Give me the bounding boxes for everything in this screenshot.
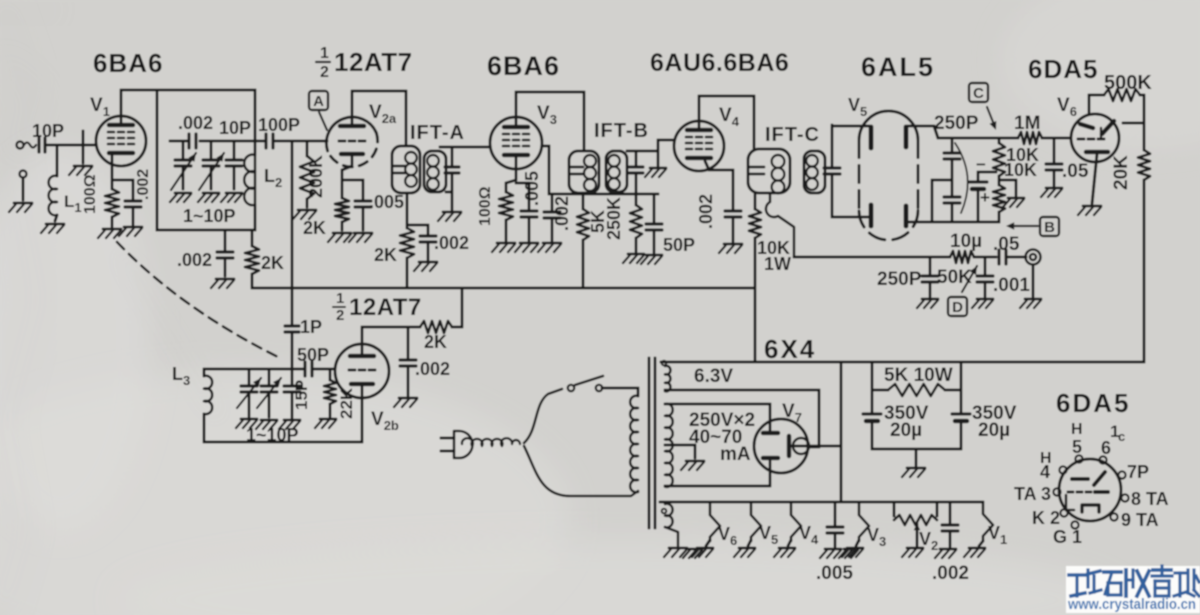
IFT-C primary coil (772, 155, 785, 168)
transformer heater winding (bottom) (665, 504, 673, 528)
capacitor 1P (injection) (285, 324, 299, 327)
svg-text:1~10P: 1~10P (183, 206, 236, 226)
capacitor .05 (output coupling) (997, 250, 1000, 264)
tube V2a half 12AT7 (326, 117, 376, 151)
svg-text:7P: 7P (1127, 462, 1149, 482)
wire osc plate to B+ rail (461, 288, 464, 327)
capacitor 15P (291, 369, 294, 385)
V7 heater circle (793, 438, 809, 454)
resistor 10K 1W (IFT-C to B+) (754, 193, 757, 209)
svg-text:5: 5 (1072, 437, 1082, 457)
filter right riser (960, 362, 963, 413)
ground (osc trimmer2) (261, 419, 277, 422)
ground (.002 V3) (543, 242, 561, 245)
IFT-B primary cap (571, 166, 583, 169)
audio line from tertiary (794, 256, 950, 259)
ground (250K) (628, 253, 644, 256)
svg-text:6X4: 6X4 (764, 334, 816, 364)
svg-text:6BA6: 6BA6 (487, 51, 560, 81)
ground (.002 heater) (940, 548, 956, 551)
wire to cathode bypass cap (112, 179, 133, 182)
svg-text:200K: 200K (306, 155, 326, 198)
svg-text:6AL5: 6AL5 (861, 52, 935, 82)
IFT-C primary can (748, 149, 790, 193)
dashed AGC line (117, 242, 278, 357)
capacitor .005 (V2a cathode) (355, 199, 371, 202)
svg-text:250P: 250P (877, 269, 922, 290)
ground (100R) (103, 228, 121, 231)
IFT-A secondary can (424, 151, 446, 192)
resistor 200K (V2a grid leak) (306, 141, 309, 156)
capacitor .005 (V3) (521, 209, 537, 212)
resistor 250K (635, 194, 638, 205)
svg-text:TA 3: TA 3 (1014, 484, 1051, 504)
svg-text:15P: 15P (292, 380, 311, 410)
svg-text:12AT7: 12AT7 (349, 294, 422, 321)
tube V1 6BA6 (96, 116, 146, 166)
svg-text:1: 1 (320, 45, 329, 62)
output jack (1026, 250, 1041, 265)
wire V3 cathode (515, 155, 518, 180)
wire V2b cathode to tank (361, 385, 364, 442)
capacitor 250P (audio shunt) (929, 257, 932, 275)
IFT-A secondary coil (427, 155, 439, 167)
potentiometer 50K (950, 251, 974, 263)
svg-text:250K: 250K (604, 197, 624, 240)
V5 diode plate bottom-left (869, 205, 874, 226)
resistor 20K (1138, 150, 1150, 180)
hum pot V2 (893, 502, 896, 516)
svg-text:50P: 50P (663, 235, 695, 255)
electrolytic 10u (det) (977, 172, 980, 181)
svg-text:500K: 500K (1104, 72, 1152, 94)
capacitor 10P (in box) (233, 141, 236, 159)
svg-text:100P: 100P (258, 115, 300, 135)
capacitor .002 (V4 cathode) (725, 209, 741, 212)
wire HV top to V7 plate (665, 403, 770, 406)
ground (.005 heater) (825, 548, 841, 551)
capacitor .002 (osc plate) (407, 327, 410, 358)
B+ rail (IF strip) (252, 287, 755, 290)
wire V2b plate (361, 327, 364, 356)
capacitor 50P (AVC) (653, 194, 656, 223)
svg-text:6BA6: 6BA6 (93, 48, 163, 78)
ground (input terminal) (14, 202, 32, 205)
ground (heater V6) (697, 547, 713, 550)
wire V5 bottom diode out (908, 221, 932, 224)
IFT-C primary cap (750, 166, 764, 169)
wire V5 top diode out (908, 125, 934, 128)
wire V2a cathode (351, 155, 354, 166)
svg-text:10P: 10P (219, 118, 251, 138)
wire V7 cathode to B+ riser (791, 445, 841, 448)
ground (22K) (320, 418, 336, 421)
cord lower to primary (524, 446, 638, 496)
IFT-C secondary coil (806, 155, 818, 167)
box bottom edge (157, 229, 255, 232)
svg-text:5K 10W: 5K 10W (884, 365, 953, 386)
box label A (309, 91, 328, 110)
wire antenna to V1 grid (48, 144, 96, 147)
svg-text:.002: .002 (177, 250, 212, 270)
svg-text:1W: 1W (764, 254, 791, 274)
trimmer cap 1 (1~10P) (182, 141, 185, 159)
heater V1 (983, 502, 993, 541)
heater V4 (791, 502, 801, 541)
heater V5 (751, 502, 761, 541)
svg-text:.002: .002 (932, 563, 969, 584)
ground (10P) (226, 192, 242, 195)
wire inside box (grid line) (170, 140, 189, 143)
V5 diode cathode bottom-right (904, 206, 909, 226)
svg-text:.05: .05 (993, 234, 1020, 255)
ground (50P) (646, 254, 662, 257)
svg-text:20K: 20K (1111, 155, 1132, 190)
AC cord twisted (462, 438, 520, 446)
wire mixer grid down to oscillator (291, 141, 294, 325)
svg-text:6.3V: 6.3V (694, 366, 733, 387)
svg-text:1~10P: 1~10P (246, 425, 299, 445)
power switch (568, 385, 574, 391)
socket pins (1075, 455, 1082, 462)
resistor 22K (osc grid) (329, 369, 332, 380)
ground (trimmer2) (203, 192, 219, 195)
capacitor 100P (coupling) (255, 140, 266, 143)
box label B (1040, 217, 1059, 236)
svg-text:9 TA: 9 TA (1121, 510, 1159, 530)
ground (heater V4) (779, 547, 795, 550)
ground (heater V1) (969, 547, 985, 550)
IFT-B secondary can (606, 151, 627, 192)
svg-text:IFT-B: IFT-B (594, 120, 649, 142)
svg-text:c: c (1118, 429, 1125, 444)
pointer arrow from B (1010, 225, 1038, 227)
svg-text:.005: .005 (816, 563, 853, 584)
IFT-C tertiary loop (766, 193, 794, 257)
wire 1M to V6 grid (1042, 137, 1071, 140)
ground (trimmer1) (175, 192, 191, 195)
ground terminal input (20, 171, 27, 178)
coil L1 (56, 145, 59, 176)
svg-text:.005: .005 (522, 171, 542, 206)
pot wiper arrow (962, 266, 977, 292)
wire V6 plate top (1088, 95, 1091, 113)
svg-text:2K: 2K (424, 332, 447, 352)
svg-text:www.crystalradio.cn: www.crystalradio.cn (1067, 596, 1196, 613)
svg-text:10K: 10K (1004, 160, 1037, 180)
wire V6 cathode (1092, 154, 1097, 204)
tank bottom line (204, 441, 362, 444)
resistor 100R (V1 cathode) (105, 189, 119, 217)
oscillator tank top line (204, 368, 305, 371)
V5 diode cathode top-right (904, 127, 909, 147)
heater V3 (859, 502, 869, 541)
capacitor .001 (984, 257, 987, 275)
svg-text:6: 6 (1101, 438, 1111, 458)
coil L3 (203, 369, 206, 376)
svg-text:.002: .002 (135, 169, 152, 200)
capacitor 250P (det stack upper) (951, 138, 954, 152)
svg-text:.002: .002 (696, 194, 716, 229)
svg-text:2K: 2K (261, 253, 284, 273)
pointer slash from A (319, 112, 327, 130)
ground (.05 V6) (1046, 187, 1062, 190)
ground (filter) (907, 467, 925, 470)
svg-text:H: H (1071, 421, 1083, 438)
IFT-B bottom line (549, 193, 658, 196)
trimmer cap 2 (1~10P) (210, 141, 213, 159)
cord to switch (524, 389, 562, 443)
capacitor .002 (V3 screen) (551, 194, 554, 211)
wire IFT-A secondary top to V3 grid (440, 146, 490, 149)
wire jack to ground (1032, 265, 1035, 297)
IFT-C secondary can (804, 151, 825, 193)
resistor 2K (osc plate) (420, 321, 452, 333)
wire V3 screen (542, 145, 549, 148)
curved pointer (ganged) (955, 143, 968, 213)
B+ line from rectifier (661, 361, 1144, 364)
wire V6 plate link (1123, 122, 1144, 125)
svg-text:−: − (976, 155, 986, 174)
svg-text:C: C (973, 85, 984, 102)
svg-text:12AT7: 12AT7 (334, 47, 413, 77)
electrolytic 350V 20u (left) (863, 412, 881, 415)
svg-text:D: D (952, 299, 963, 316)
wire to .005 (V3) (516, 182, 529, 185)
det network left leg (932, 179, 952, 182)
capacitor .002 (V1 cathode) (125, 199, 141, 202)
svg-text:.002: .002 (434, 233, 469, 253)
transformer 6.3V winding (top) (665, 366, 670, 392)
transformer primary coil (630, 396, 638, 493)
svg-text:100Ω: 100Ω (82, 174, 99, 214)
IFT-A secondary cap (451, 147, 454, 166)
ground (100R V3) (497, 242, 515, 245)
tuning capacitor box (157, 90, 255, 230)
ground (.002 IFT-A) (419, 261, 437, 264)
grid stub to ground (82, 131, 85, 163)
svg-text:.002: .002 (552, 196, 572, 231)
tube V7 6X4 (754, 419, 808, 473)
ground (10K junction) (1008, 197, 1024, 200)
svg-text:8 TA: 8 TA (1131, 489, 1169, 509)
svg-text:G 1: G 1 (1053, 527, 1082, 547)
box label D (948, 297, 967, 316)
resistor 5K (IFT-B to B+) (582, 194, 585, 209)
capacitor .005 (heater) (834, 502, 837, 526)
ground (osc trimmer1) (241, 418, 257, 421)
IFT-C secondary cap (831, 125, 834, 167)
ground (.005 V2a) (354, 232, 372, 235)
transformer HV winding (665, 404, 673, 487)
heater V6 (710, 502, 720, 541)
svg-text:A: A (313, 93, 324, 110)
resistor 2K (L2 to B+ rail) (251, 230, 254, 246)
wire 10K junction to ground (999, 179, 1016, 182)
resistor 500K (1104, 89, 1140, 101)
svg-text:6DA5: 6DA5 (1028, 54, 1098, 84)
svg-text:1: 1 (336, 290, 344, 307)
socket inner triode (1072, 477, 1088, 481)
wire cap to ground (132, 208, 135, 225)
resistor 10K upper (998, 138, 1001, 143)
ground (.001) (977, 298, 993, 301)
capacitor .002 series (in box) (187, 134, 190, 148)
IFT-B top link (627, 150, 658, 153)
svg-text:.002: .002 (415, 359, 450, 379)
wire IFT-C to V5 top diode (832, 125, 869, 128)
svg-text:.002: .002 (178, 113, 213, 133)
ground (200K) (298, 209, 316, 212)
wire V4 cathode (705, 161, 709, 170)
capacitor 250P (det stack lower) (944, 195, 960, 198)
IFT-A primary cap (394, 165, 406, 168)
resistor 10K lower (993, 185, 1005, 212)
wire V4 plate to IFT-C (698, 96, 701, 130)
ground (L1) (46, 223, 64, 226)
svg-text:100Ω: 100Ω (477, 186, 494, 226)
ground (grid stub) (74, 165, 92, 168)
svg-text:10µ: 10µ (950, 231, 982, 252)
svg-text:1P: 1P (300, 317, 322, 337)
ground (.002 V1) (124, 226, 142, 229)
wire right riser to B+ line (1143, 180, 1146, 362)
svg-text:.005: .005 (369, 192, 404, 212)
svg-text:50P: 50P (297, 345, 329, 365)
B+ riser from V7 (840, 362, 843, 502)
svg-text:4: 4 (1040, 462, 1050, 482)
AC plug (441, 437, 454, 440)
svg-text:20µ: 20µ (978, 420, 1010, 441)
svg-text:.001: .001 (993, 275, 1030, 296)
ground (15P) (284, 419, 300, 422)
pointer arrow from C (987, 107, 995, 127)
wire 500K to right riser (1140, 94, 1144, 97)
resistor 100R (V3 cathode) (499, 192, 513, 220)
IFT-B secondary cap (635, 151, 638, 166)
svg-text:20µ: 20µ (890, 420, 922, 441)
wire V3 plate to IFT-B (515, 92, 518, 127)
IFT-A primary can (392, 146, 420, 193)
capacitor 10P (antenna coupling) (37, 138, 40, 152)
svg-text:IFT-A: IFT-A (410, 122, 465, 144)
ground (IFT-A secondary) (443, 211, 461, 214)
capacitor .002 (IFT-A bypass) (420, 234, 436, 237)
capacitor .002 (heater) (949, 502, 952, 524)
svg-text:2K: 2K (303, 218, 326, 238)
resistor 5K 10W (872, 389, 888, 392)
capacitor .05 (V6 grid) (1053, 138, 1056, 163)
box label C (969, 83, 988, 102)
filter bottom link (872, 448, 961, 451)
filter left riser (871, 362, 874, 413)
wire IFT-A primary bottom (406, 193, 409, 228)
wire HV bottom to V7 plate2 (665, 485, 770, 488)
ground (2K V2a) (333, 232, 351, 235)
tube V4 6AU6/6BA6 (674, 121, 724, 171)
wire IFT-B to V4 grid (657, 140, 660, 166)
tube V6 6DA5 (1071, 114, 1119, 162)
coil L2 (in box right edge) (254, 90, 257, 155)
IFT-B secondary coil (608, 155, 620, 167)
trimmer cap 2 (osc 1~10P) (268, 369, 271, 385)
svg-text:250P: 250P (934, 113, 979, 134)
tube V2b half 12AT7 (335, 344, 389, 398)
ground (jack) (1025, 298, 1041, 301)
svg-text:K 2: K 2 (1032, 508, 1060, 528)
socket circle (1059, 459, 1121, 521)
wire V1 plate to top rail (120, 90, 123, 125)
wire switch to primary (602, 387, 638, 390)
IFT-A primary coil (405, 152, 417, 164)
svg-text:2: 2 (320, 64, 329, 81)
wire to .005 (342, 179, 363, 182)
ground (V6 cathode) (1083, 205, 1101, 208)
V5 diode plate top-left (869, 127, 874, 148)
wire V2a plate to IFT-A (351, 91, 354, 126)
svg-text:10P: 10P (32, 121, 64, 141)
ground (.005 V3) (520, 242, 538, 245)
svg-text:6AU6.6BA6: 6AU6.6BA6 (650, 49, 789, 77)
ground (heater winding) (669, 547, 687, 550)
svg-text:mA: mA (720, 444, 751, 465)
svg-text:.05: .05 (1062, 161, 1089, 182)
heater rail (660, 501, 983, 504)
tube V3 6BA6 (490, 117, 542, 169)
ground (.002 osc) (399, 397, 417, 400)
ground (250P audio) (922, 298, 938, 301)
antenna input terminal (17, 142, 24, 149)
HV center tap (665, 444, 695, 447)
ground (heater V5) (739, 547, 755, 550)
trimmer cap 1 (osc 1~10P) (248, 369, 251, 385)
svg-text:6DA5: 6DA5 (1056, 388, 1130, 418)
svg-text:1M: 1M (1014, 113, 1040, 134)
capacitor 50P (osc grid) (303, 362, 306, 376)
electrolytic 350V 20u (right) (952, 412, 970, 415)
wire cathode resistor to ground (111, 217, 114, 227)
ground (center tap) (686, 460, 704, 463)
svg-text:B: B (1044, 219, 1055, 236)
ground (hum pot) (907, 547, 923, 550)
wire 6.3V to V7 heater (665, 389, 819, 392)
IFT-B primary can (569, 151, 599, 193)
ground (heater V3) (847, 547, 863, 550)
svg-text:2K: 2K (374, 245, 397, 265)
wire B+ rail down to PSU (754, 288, 757, 362)
svg-text:+: + (980, 188, 990, 207)
capacitor .002 (below box) (224, 230, 227, 250)
resistor 2K (IFT-A to B+) (400, 228, 414, 258)
resistor 1M (V6 grid) (1018, 132, 1042, 144)
resistor 2K (V2a cathode) (335, 198, 349, 222)
wire winding to ground (665, 527, 678, 546)
wire to .002 (IFT-A) (407, 224, 428, 227)
tube V5 6AL5 (859, 111, 918, 140)
svg-text:IFT-C: IFT-C (765, 124, 820, 146)
ground (.002 below box) (216, 278, 234, 281)
svg-text:2: 2 (336, 307, 344, 324)
wire V1 cathode (111, 153, 114, 189)
ground (IFT-B secondary) (650, 167, 666, 170)
IFT-B primary coil (584, 155, 596, 167)
wire IFT-A secondary return (451, 192, 454, 210)
wire IFT-C to V5 bottom diode (832, 216, 869, 219)
ground (.002 V4) (724, 243, 742, 246)
transformer core (648, 358, 651, 528)
